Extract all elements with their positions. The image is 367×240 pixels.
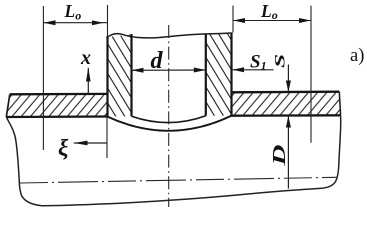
left L0 extension line (outer) [42,6,44,150]
x arrowhead [86,68,91,82]
plate left end edge [6,94,10,117]
d arrowhead left [132,68,144,73]
right L0 arrowhead right [299,18,311,23]
svg-text:Lo: Lo [260,1,278,22]
svg-text:а): а) [350,46,364,66]
d dimension line [132,69,206,71]
xi extension line (below plate, on tube od) [106,117,108,158]
xi arrowhead [74,141,88,146]
D dimension arrow (vertical, pointing up at plate bottom) [287,116,289,189]
svg-text:D: D [269,145,289,167]
svg-text:S1: S1 [250,52,267,73]
left L0 dimension line [43,22,107,24]
flared tube end, outer curve [108,116,232,131]
drum shell outline (break lines, below plate) [7,116,341,206]
d arrowhead right [194,68,206,73]
S1 arrowhead [232,67,244,72]
D arrowhead [286,116,291,128]
svg-text:S: S [273,54,288,68]
tube right wall outer edge [230,33,232,116]
svg-text:d: d [151,48,164,74]
right L0 dimension line [233,20,311,22]
tube left wall inner edge [130,34,132,116]
plate right end edge [339,92,340,116]
right L0 extension line (outer) [310,6,312,143]
S dimension arrow (vertical, pointing down at plate top) [287,65,289,93]
tube centre line (vertical dash-dot) [168,25,170,207]
left L0 arrowhead left [44,20,56,25]
S arrowhead [286,81,291,93]
flared tube end, inner curve [132,116,206,123]
svg-text:Lo: Lo [64,1,82,22]
x arrow (vertical, pointing up from plate top) [87,68,89,95]
drum axis line (horizontal dash-dot) [20,177,337,183]
tube left wall (hatched) [108,35,132,117]
right L0 arrowhead left [233,18,245,23]
right L0 extension over tube wall [232,6,234,33]
plate left bottom edge [6,115,108,118]
tube left wall outer edge [106,36,108,117]
plate left (tube sheet, hatched) [7,94,108,117]
tube top break line (wavy) [108,33,232,38]
left L0 extension over tube wall [107,5,109,37]
plate right top edge [231,91,339,94]
plate left top edge [10,93,108,96]
tube right wall inner edge [205,34,207,116]
left L0 arrowhead right [92,20,104,25]
plate right (tube sheet, hatched) [232,92,341,116]
svg-text:ξ: ξ [58,136,69,161]
tube right wall (hatched) [206,33,232,116]
plate right bottom edge [231,114,341,117]
svg-text:x: x [80,47,91,69]
xi dimension arrow (horizontal, pointing left) [74,142,107,144]
S1 dimension arrow [232,69,274,71]
